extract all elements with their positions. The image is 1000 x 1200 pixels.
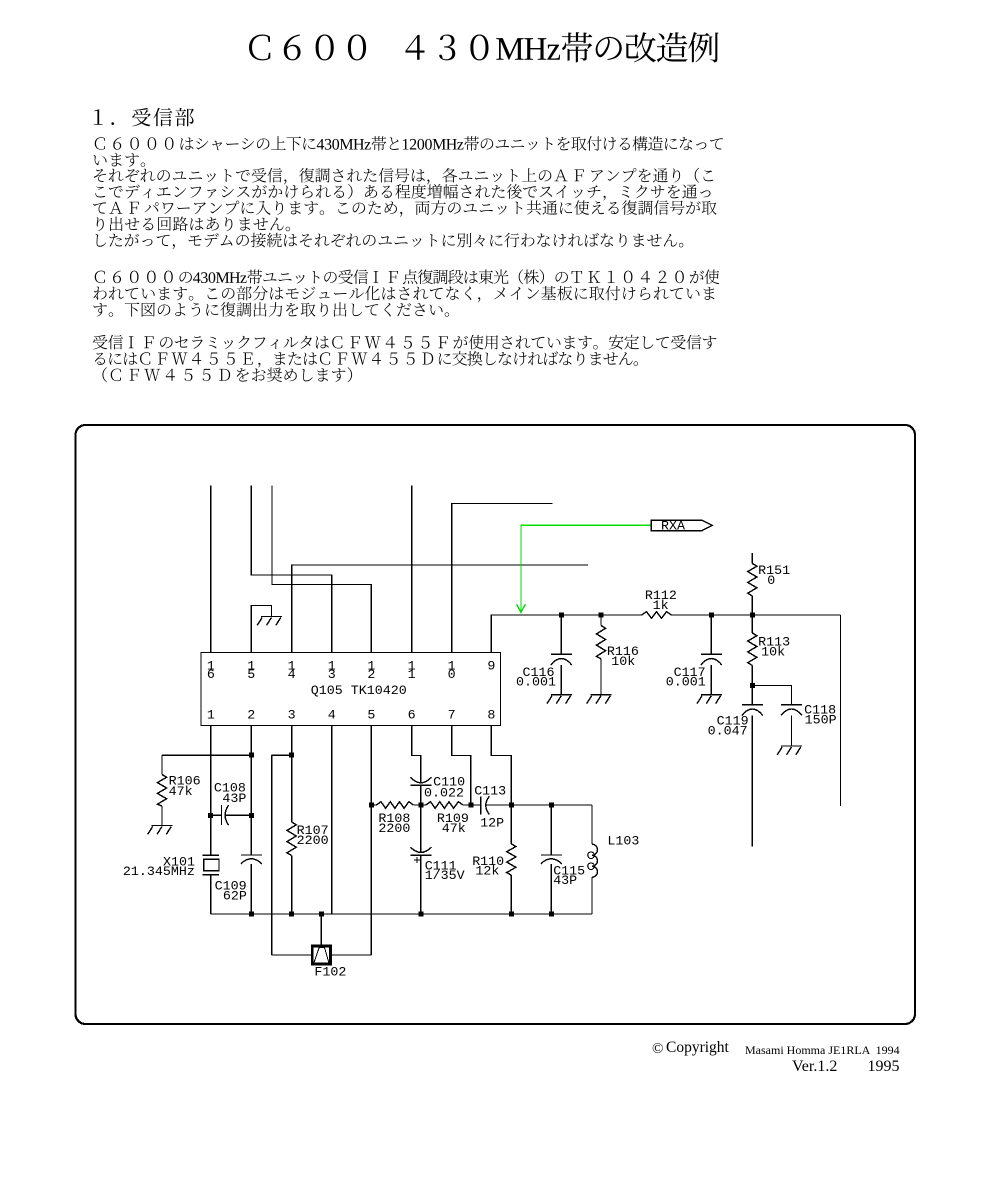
ground (R116) xyxy=(587,695,612,704)
svg-text:12P: 12P xyxy=(480,816,504,831)
svg-text:47k: 47k xyxy=(169,785,193,800)
ground (C117) xyxy=(697,695,722,704)
svg-text:0.022: 0.022 xyxy=(424,787,464,802)
wire pin 11 up xyxy=(411,486,413,653)
capacitor C115 xyxy=(541,805,585,914)
ground (C118) xyxy=(777,746,802,755)
svg-text:1/35V: 1/35V xyxy=(425,869,465,884)
svg-text:1k: 1k xyxy=(653,599,669,614)
svg-text:3: 3 xyxy=(288,708,296,723)
svg-text:4: 4 xyxy=(288,668,296,683)
wire pin 10 stub xyxy=(452,504,553,653)
wire pin 6 jog xyxy=(412,726,421,783)
wire demod node right xyxy=(672,615,841,806)
resistor R110 xyxy=(472,805,516,914)
svg-text:C113: C113 xyxy=(474,785,506,800)
svg-text:F102: F102 xyxy=(314,965,346,980)
wire pin 1 down xyxy=(210,726,212,856)
Q105 top pin numbers 16 15 14 13 12 11 10 9 xyxy=(207,659,496,683)
svg-text:12k: 12k xyxy=(475,865,499,880)
wire X101 to rail xyxy=(210,875,212,914)
ceramic filter F102 xyxy=(312,946,346,980)
wire pin 3 down xyxy=(291,726,293,823)
resistor R112 xyxy=(642,589,677,618)
capacitor C110 xyxy=(410,775,465,805)
svg-text:RXA: RXA xyxy=(661,519,685,534)
wire pin 3 branch to F102 left xyxy=(272,755,311,955)
svg-text:150P: 150P xyxy=(805,713,837,728)
ground (C116) xyxy=(547,695,572,704)
capacitor C109 xyxy=(215,855,262,914)
wire R113 bottom branch to C118 xyxy=(752,686,791,705)
svg-text:5: 5 xyxy=(247,668,255,683)
Q105 label TK10420 xyxy=(311,684,407,699)
capacitor C117 xyxy=(666,615,722,695)
resistor R108 xyxy=(371,802,413,837)
svg-text:9: 9 xyxy=(487,659,495,674)
capacitor C113 xyxy=(474,785,511,832)
wire pin 4 down to rail xyxy=(331,726,333,915)
resistor R116 xyxy=(596,615,639,695)
svg-text:47k: 47k xyxy=(442,822,466,837)
ground (R106) xyxy=(148,826,173,835)
svg-text:0: 0 xyxy=(448,668,456,683)
svg-text:2200: 2200 xyxy=(297,834,329,849)
ground rail wire xyxy=(211,913,592,915)
svg-text:0.001: 0.001 xyxy=(666,676,706,691)
ground (pin 15) xyxy=(257,617,282,626)
wire pin 5 down to node xyxy=(370,726,372,806)
svg-text:5: 5 xyxy=(367,708,375,723)
svg-text:0: 0 xyxy=(767,574,775,589)
svg-text:4: 4 xyxy=(328,708,336,723)
capacitor C116 xyxy=(516,615,572,695)
svg-text:2: 2 xyxy=(247,708,255,723)
resistor R107 xyxy=(287,822,329,914)
svg-text:0.001: 0.001 xyxy=(516,676,556,691)
green demod takeoff arrow to RXA xyxy=(517,525,652,612)
svg-text:10k: 10k xyxy=(611,655,635,670)
svg-text:2: 2 xyxy=(367,668,375,683)
svg-text:L103: L103 xyxy=(607,834,639,849)
wire from top into pin 13 xyxy=(251,486,332,653)
svg-text:0.047: 0.047 xyxy=(708,725,748,740)
svg-text:1: 1 xyxy=(408,668,416,683)
svg-text:10k: 10k xyxy=(761,645,785,660)
svg-text:3: 3 xyxy=(328,668,336,683)
wire pin 8 jog xyxy=(491,726,511,806)
node RXA flag xyxy=(651,519,712,534)
inductor L103 xyxy=(588,805,640,914)
svg-text:21.345MHz: 21.345MHz xyxy=(123,865,195,880)
resistor R106 xyxy=(157,755,251,825)
wire pin 9 riser to demod node xyxy=(491,615,641,653)
wire pin 7 jog xyxy=(452,726,471,806)
wire pin 15 to ground xyxy=(251,606,271,653)
wire pin 16 up xyxy=(210,486,212,653)
junction dots xyxy=(208,613,755,917)
wire R108 to C110 node xyxy=(413,804,426,806)
capacitor C119 xyxy=(708,686,763,847)
svg-text:Q105 TK10420: Q105 TK10420 xyxy=(311,684,407,699)
svg-text:43P: 43P xyxy=(553,874,577,889)
svg-text:2200: 2200 xyxy=(378,822,410,837)
svg-text:1: 1 xyxy=(207,708,215,723)
capacitor C111 electrolytic xyxy=(410,805,464,914)
op-amp U1: IC Q105 TK10420 body xyxy=(201,653,501,726)
resistor R151 xyxy=(748,553,790,615)
wire pin 2 down xyxy=(250,726,252,856)
svg-text:43P: 43P xyxy=(222,792,246,807)
capacitor C108 xyxy=(211,782,252,826)
resistor R109 xyxy=(426,802,481,837)
svg-text:62P: 62P xyxy=(223,890,247,905)
wire F102 top to rail xyxy=(320,914,322,945)
wire pin 5 node down to F102 right xyxy=(332,805,372,955)
crystal X101 xyxy=(123,855,219,880)
svg-text:7: 7 xyxy=(448,708,456,723)
Q105 bottom pin numbers 1-8 xyxy=(207,708,496,723)
wire node to R110/C115/L103 xyxy=(489,804,592,806)
svg-text:6: 6 xyxy=(408,708,416,723)
wire from top into pin 12 xyxy=(272,486,371,653)
svg-text:8: 8 xyxy=(487,708,495,723)
capacitor C118 xyxy=(781,704,837,747)
resistor R113 xyxy=(748,615,790,686)
svg-text:6: 6 xyxy=(207,668,215,683)
wire pin 14 stub xyxy=(292,565,588,653)
